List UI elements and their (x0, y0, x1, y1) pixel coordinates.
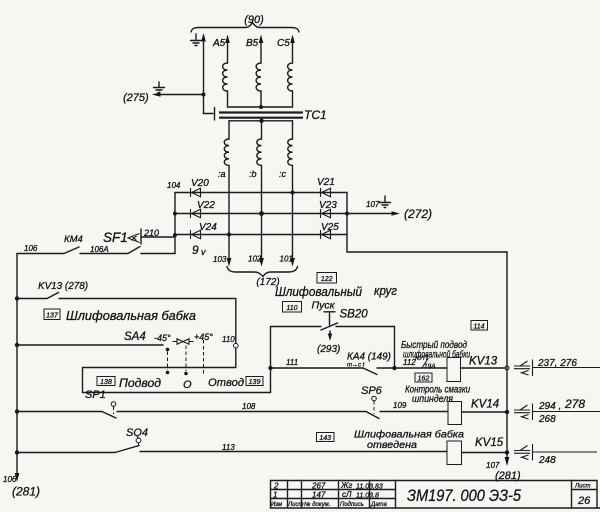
svg-text:SP1: SP1 (85, 389, 106, 401)
svg-text:1: 1 (273, 491, 277, 500)
svg-text:SQ4: SQ4 (126, 427, 148, 439)
svg-text:2: 2 (273, 482, 279, 491)
svg-text:106А: 106А (90, 245, 109, 254)
svg-text:отведена: отведена (367, 439, 417, 451)
svg-text:101: 101 (280, 255, 293, 264)
svg-text:267: 267 (311, 482, 326, 491)
svg-text:т→с t: т→с t (347, 363, 365, 369)
svg-text:KV13: KV13 (469, 356, 498, 368)
svg-text:сЛ: сЛ (342, 490, 352, 499)
svg-text:110: 110 (286, 305, 297, 312)
svg-text:26: 26 (577, 495, 591, 507)
svg-text:104: 104 (167, 181, 181, 190)
svg-text:В5: В5 (246, 38, 259, 49)
svg-text:107: 107 (366, 200, 380, 209)
svg-text:КМ4: КМ4 (64, 234, 83, 245)
svg-text:KV14: KV14 (471, 399, 499, 411)
svg-text:109: 109 (393, 401, 407, 410)
svg-text:Шлифовальный: Шлифовальный (275, 285, 362, 299)
svg-text:138: 138 (100, 379, 112, 386)
svg-text:SA4: SA4 (124, 331, 146, 343)
svg-text:110: 110 (222, 335, 235, 344)
svg-text:Изм: Изм (271, 502, 282, 508)
svg-text:шпинделя: шпинделя (412, 394, 454, 405)
svg-text::с: :с (279, 169, 287, 179)
svg-text:102: 102 (248, 255, 262, 264)
svg-text:268: 268 (538, 414, 556, 425)
svg-text:111: 111 (286, 358, 298, 367)
svg-text:278: 278 (564, 397, 585, 411)
svg-text:№ докум.: № докум. (304, 501, 330, 508)
svg-text:А5: А5 (212, 38, 226, 49)
svg-text:КА4 (149): КА4 (149) (347, 352, 391, 363)
svg-text:106: 106 (3, 475, 17, 484)
svg-text:ТС1: ТС1 (304, 108, 327, 122)
svg-text:SF1: SF1 (103, 230, 128, 245)
svg-text:О: О (183, 379, 192, 391)
svg-text:114: 114 (473, 324, 484, 331)
svg-text:Отвод: Отвод (208, 377, 244, 389)
svg-text:-45°: -45° (154, 333, 171, 343)
svg-text:108: 108 (242, 402, 256, 411)
svg-text:Шлифовальная бабка: Шлифовальная бабка (66, 308, 196, 323)
svg-text:Лист: Лист (287, 502, 303, 508)
svg-text:V24: V24 (199, 222, 217, 233)
svg-text:237, 276: 237, 276 (537, 358, 577, 369)
svg-text:19А: 19А (424, 363, 436, 370)
svg-text:9: 9 (192, 243, 199, 257)
svg-text:103: 103 (213, 255, 227, 264)
svg-text::b: :b (249, 169, 257, 179)
svg-text:круг: круг (374, 284, 397, 298)
svg-text:106: 106 (24, 244, 38, 253)
svg-text:V20: V20 (191, 178, 209, 189)
svg-text:Лист: Лист (574, 484, 590, 490)
svg-text:137: 137 (46, 313, 59, 320)
svg-text:11.03.8: 11.03.8 (356, 493, 379, 500)
svg-text:ЗМ197. 000 ЭЗ-5: ЗМ197. 000 ЭЗ-5 (407, 486, 521, 505)
svg-text:Пуск: Пуск (312, 300, 336, 312)
svg-text:SP6: SP6 (361, 385, 383, 397)
svg-text:147: 147 (312, 491, 326, 500)
svg-text:v: v (201, 247, 206, 257)
svg-text:Подпись: Подпись (340, 502, 364, 508)
svg-text:(275): (275) (123, 92, 149, 104)
svg-text:(281): (281) (12, 485, 40, 499)
svg-text:162: 162 (418, 376, 430, 383)
svg-text:210: 210 (143, 228, 159, 238)
svg-text:248: 248 (538, 455, 556, 466)
svg-text:113: 113 (222, 443, 235, 452)
svg-text:139: 139 (249, 379, 261, 386)
svg-text:SB20: SB20 (340, 309, 369, 321)
svg-text:Подвод: Подвод (119, 378, 161, 390)
svg-text:Дата: Дата (370, 502, 387, 508)
svg-text:122: 122 (321, 276, 333, 283)
svg-text:(293): (293) (317, 344, 340, 355)
svg-text:11.03.83: 11.03.83 (356, 484, 383, 491)
svg-text:294 ,: 294 , (538, 401, 561, 412)
svg-text:V21: V21 (317, 177, 335, 188)
svg-text:KV13 (278): KV13 (278) (38, 281, 88, 292)
svg-text:V23: V23 (319, 200, 337, 211)
svg-text:KV15: KV15 (475, 437, 504, 449)
svg-text:шлифовальной бабки: шлифовальной бабки (403, 349, 470, 361)
svg-text::а: :а (218, 169, 226, 179)
svg-text:107: 107 (486, 461, 500, 470)
svg-text:(272): (272) (404, 207, 432, 221)
svg-text:Жг: Жг (340, 481, 352, 490)
svg-text:С5: С5 (277, 38, 290, 49)
svg-text:143: 143 (319, 435, 331, 442)
